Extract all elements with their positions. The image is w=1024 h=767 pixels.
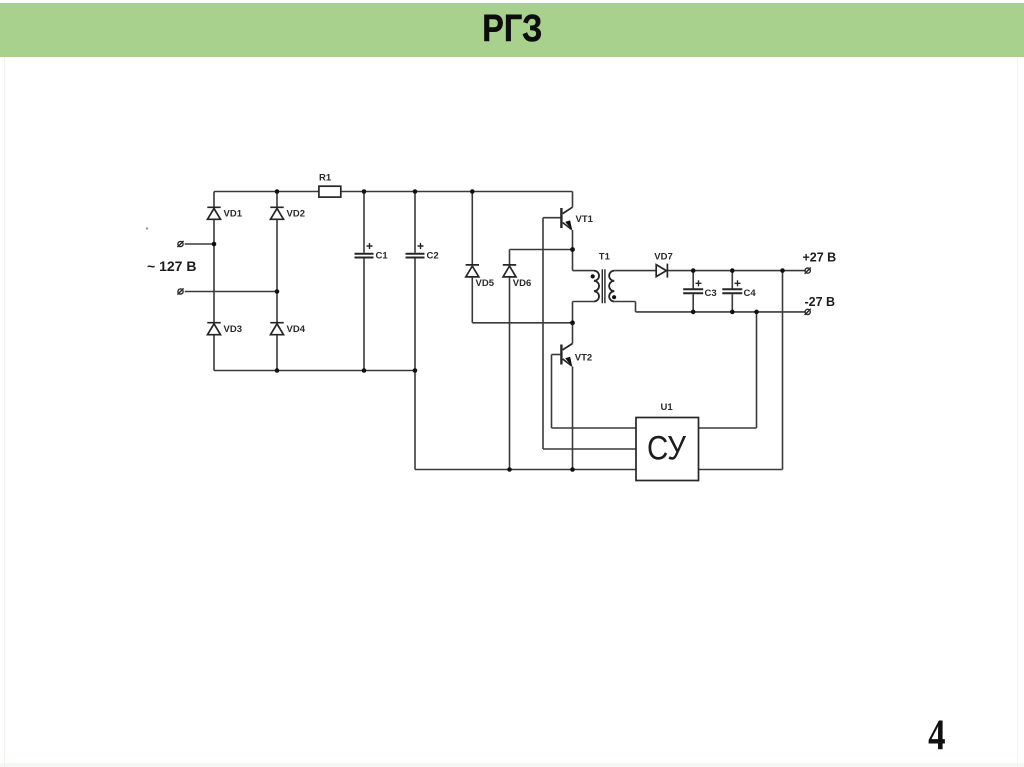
- junction top rail at VD2: [275, 189, 280, 194]
- junction top rail at C1: [362, 189, 367, 194]
- junction +27 rail branch: [780, 268, 785, 273]
- junction top rail at C2: [413, 189, 418, 194]
- transistor VT2 emitter arrow: [565, 357, 572, 367]
- capacitor C2 plus: [418, 243, 424, 249]
- diode VD2: [270, 207, 283, 219]
- terminal -27: [805, 309, 810, 314]
- svg-text:VD2: VD2: [287, 209, 305, 220]
- terminal AC1: [178, 241, 183, 246]
- svg-text:R1: R1: [319, 173, 332, 184]
- transistor VT1 emitter diagonal: [563, 223, 572, 230]
- junction control rail at VD6: [507, 467, 512, 472]
- slide title: [0, 10, 1024, 48]
- transistor VT2 collector diagonal: [563, 344, 573, 350]
- svg-text:U1: U1: [661, 402, 674, 413]
- capacitor C4 plates: [722, 289, 742, 293]
- wire VT1 base feed: [543, 217, 560, 219]
- svg-text:СУ: СУ: [647, 430, 687, 468]
- svg-text:C2: C2: [427, 251, 439, 262]
- wire node to transformer primary top: [573, 250, 594, 271]
- junction -27 rail at C3: [691, 310, 696, 315]
- svg-text:-27 В: -27 В: [805, 295, 836, 309]
- transformer T1 core: [602, 269, 605, 303]
- transistor VT1 collector diagonal: [563, 207, 573, 213]
- diode VD3: [207, 323, 220, 335]
- wire top rail right of R1: [341, 191, 573, 193]
- transformer T1 primary winding: [594, 271, 599, 302]
- page number: [900, 710, 973, 760]
- wire C4 column: [731, 271, 733, 312]
- junction bottom rail at C2 corner: [413, 368, 418, 373]
- wire -27 rail: [636, 311, 805, 313]
- wire control bottom rail to U1: [415, 469, 636, 471]
- wire secondary bottom step: [614, 302, 635, 312]
- junction top rail at VD5: [470, 189, 475, 194]
- header bar: [0, 3, 1024, 57]
- transistor VT2 emitter diagonal: [563, 359, 572, 366]
- svg-text:VD7: VD7: [654, 251, 672, 262]
- wire C3 column: [692, 271, 694, 312]
- svg-text:VD6: VD6: [513, 278, 531, 289]
- wire VT2 base line down to U1: [552, 355, 637, 429]
- wire VT2 base feed: [552, 354, 561, 356]
- junction control rail at VT2: [570, 467, 575, 472]
- diode VD5: [466, 265, 479, 277]
- capacitor C3 plus: [696, 280, 702, 286]
- svg-text:~ 127 В: ~ 127 В: [147, 258, 196, 274]
- junction +27 rail at C3: [691, 268, 696, 273]
- wire VD6 column: [509, 250, 511, 470]
- diode VD4: [270, 323, 283, 335]
- diode VD7: [656, 264, 667, 278]
- svg-text:VD1: VD1: [224, 209, 243, 220]
- wire VT1 base line down to U1: [543, 218, 636, 449]
- svg-text:VD5: VD5: [476, 278, 495, 289]
- resistor R1: [319, 186, 341, 197]
- faint slide borders: [0, 763, 1024, 767]
- svg-text:VD3: VD3: [224, 324, 242, 335]
- wire VT1 collector from top rail: [572, 192, 574, 208]
- wire VD1-VD3 column: [213, 192, 215, 371]
- wire top rail left of R1: [214, 191, 319, 193]
- wire VT2 emitter down to control rail: [572, 367, 574, 470]
- wire -27 rail down to U1 right upper: [699, 312, 757, 428]
- wire C1 column: [363, 192, 365, 371]
- svg-text:+27 В: +27 В: [803, 250, 837, 264]
- junction VT1 emitter node: [570, 247, 575, 252]
- transformer secondary polarity dot: [612, 295, 616, 299]
- svg-text:VT1: VT1: [576, 214, 594, 225]
- wire VD6 top to VT1 emitter node: [510, 249, 573, 251]
- junction VT2 collector node: [570, 320, 575, 325]
- box U1: [636, 418, 699, 481]
- wire VT1 emitter down to node: [572, 230, 574, 250]
- wire VD5 column: [471, 192, 473, 323]
- diode VD1: [207, 207, 220, 219]
- wire VT2 collector: [572, 323, 574, 344]
- svg-text:VD4: VD4: [287, 324, 306, 335]
- terminal AC2: [178, 289, 183, 294]
- transformer primary polarity dot: [591, 274, 595, 278]
- junction AC2 at bridge: [275, 289, 280, 294]
- transistor VT1 emitter arrow: [565, 220, 572, 230]
- terminal +27: [805, 268, 810, 273]
- wire C2 column: [414, 192, 416, 371]
- junction AC1 at bridge: [212, 242, 217, 247]
- junction bottom rail at C1: [362, 368, 367, 373]
- wire +27 rail down to U1 right lower: [699, 271, 783, 470]
- capacitor C1 plus: [367, 243, 373, 249]
- speck artifact: [146, 227, 148, 229]
- transformer T1 secondary winding: [609, 271, 614, 302]
- junction -27 rail at C4: [730, 310, 735, 315]
- wire transformer primary bottom: [573, 302, 594, 323]
- diode VD6: [503, 265, 516, 277]
- wire AC input phase 2: [185, 291, 277, 293]
- junction bottom rail at VD4: [275, 368, 280, 373]
- svg-text:VT2: VT2: [575, 352, 592, 363]
- wire AC input phase 1: [185, 243, 214, 245]
- svg-text:C1: C1: [376, 251, 389, 262]
- svg-text:C3: C3: [705, 288, 717, 299]
- transistor VT1 base bar: [560, 208, 562, 228]
- svg-text:T1: T1: [599, 251, 611, 262]
- wire VD2-VD4 column: [276, 192, 278, 371]
- capacitor C1 plates: [355, 254, 374, 258]
- wire VD5 bottom to VT2 collector node: [472, 322, 572, 324]
- wire from bottom rail down to control rail: [414, 371, 416, 470]
- transistor VT2 base bar: [560, 345, 562, 365]
- wire secondary top to VD7: [614, 270, 656, 272]
- capacitor C3 plates: [683, 289, 703, 293]
- capacitor C2 plates: [406, 254, 425, 258]
- wire VD7 cathode to +27 terminal: [667, 270, 804, 272]
- junction -27 rail branch: [754, 310, 759, 315]
- junction +27 rail at C4: [730, 268, 735, 273]
- capacitor C4 plus: [735, 280, 741, 286]
- wire bottom rail of bridge: [214, 370, 415, 372]
- svg-text:C4: C4: [744, 288, 757, 299]
